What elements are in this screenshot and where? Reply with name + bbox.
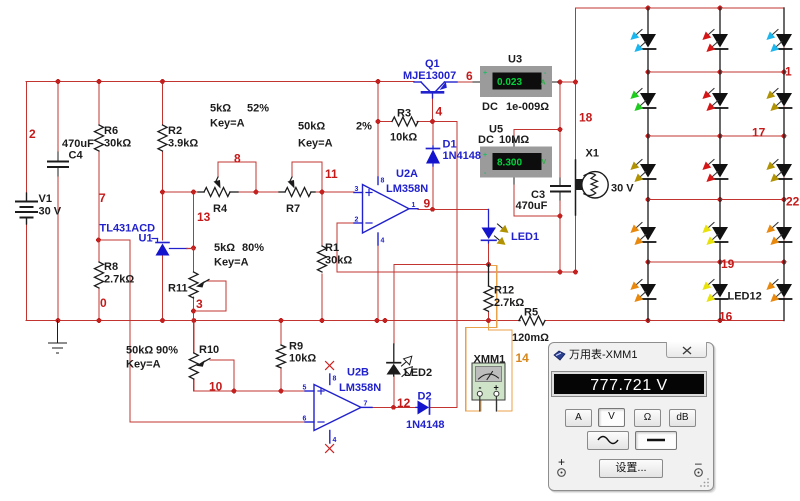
svg-text:Key=A: Key=A — [126, 359, 161, 371]
svg-text:5kΩ: 5kΩ — [214, 242, 235, 254]
svg-text:777.721 V: 777.721 V — [590, 377, 667, 394]
wire U2A pin8 column from top rail — [377, 82, 379, 178]
node dot node 12 — [391, 405, 396, 410]
resistor R8 — [95, 262, 104, 288]
svg-text:8: 8 — [333, 376, 337, 383]
svg-text:0.023: 0.023 — [497, 77, 522, 88]
plus terminal — [558, 455, 565, 469]
svg-text:7: 7 — [99, 191, 106, 205]
resistor R3 — [392, 117, 418, 126]
node dot U3 right x560 — [558, 80, 563, 85]
LED array diode r2c1 — [630, 72, 656, 136]
resistor R5 shunt — [519, 316, 545, 325]
svg-text:5kΩ: 5kΩ — [210, 103, 231, 115]
LED array diode r1c3 — [766, 8, 792, 72]
X mark U2B pin8 unconnected — [326, 362, 334, 370]
diode D1 1N4148 — [426, 146, 440, 166]
LED array diode r5c3 — [766, 262, 792, 321]
svg-text:30 V: 30 V — [611, 183, 634, 195]
svg-text:3: 3 — [355, 186, 359, 193]
wire XMM1 minus lead from node A — [466, 266, 497, 412]
svg-text:Key=A: Key=A — [298, 138, 333, 150]
node dot node 3 — [191, 309, 196, 314]
svg-text:1N4148: 1N4148 — [443, 150, 482, 162]
resistor R2 — [158, 125, 167, 151]
svg-text:2: 2 — [29, 127, 36, 141]
diode D2 1N4148 — [416, 401, 430, 415]
wire R12 bottom lead to rail — [488, 312, 490, 321]
svg-text:X1: X1 — [586, 148, 599, 160]
svg-text:LM358N: LM358N — [386, 183, 428, 195]
LED array diode r2c2 — [702, 72, 728, 136]
wire array right column — [783, 8, 785, 321]
node dot X1 bottom lineB — [573, 270, 578, 275]
svg-text:18: 18 — [579, 111, 593, 125]
svg-text:3.9kΩ: 3.9kΩ — [168, 138, 198, 150]
window close button — [666, 342, 707, 358]
wire U3 right to node18 riser — [557, 81, 576, 83]
ground — [49, 321, 67, 354]
wire C4 column top — [57, 82, 59, 153]
svg-text:R4: R4 — [213, 203, 228, 215]
battery V1 — [16, 193, 37, 224]
wire array row rail net 22 — [648, 199, 784, 201]
svg-text:6: 6 — [303, 416, 307, 423]
svg-text:470uF: 470uF — [62, 138, 94, 150]
node dot node13 top — [191, 190, 196, 195]
svg-text:R2: R2 — [168, 125, 182, 137]
svg-text:R7: R7 — [286, 203, 300, 215]
node dot R8 top branch — [96, 238, 101, 243]
svg-text:1N4148: 1N4148 — [406, 419, 445, 431]
wire riser to array top rail — [575, 8, 577, 82]
svg-text:R12: R12 — [494, 285, 514, 297]
node dot top rail R2 — [160, 79, 165, 84]
diode LED1 — [482, 209, 509, 245]
LED array diode r5c2 — [702, 262, 728, 321]
LED array diode r1c1 — [630, 8, 656, 72]
node dot node 10 wiper — [232, 389, 237, 394]
svg-text:U2B: U2B — [347, 367, 369, 379]
node dot top rail pin8 branch — [376, 79, 381, 84]
instrument XMM1 icon — [472, 363, 505, 411]
potentiometer R7 — [279, 177, 315, 197]
wire battery bottom to ground rail — [26, 224, 28, 320]
svg-text:80%: 80% — [242, 242, 264, 254]
svg-text:V1: V1 — [39, 193, 52, 205]
svg-text:10: 10 — [209, 380, 223, 394]
svg-text:1: 1 — [785, 65, 792, 79]
wire LED1 bottom lead to node A — [488, 243, 490, 265]
multimeter dialog window XMM1 — [548, 342, 714, 491]
LED array diode r4c3 — [766, 200, 792, 263]
svg-text:LM358N: LM358N — [339, 382, 381, 394]
svg-text:2: 2 — [355, 217, 359, 224]
potentiometer R10 — [189, 353, 210, 379]
wire left column node 2 — [26, 82, 28, 194]
node dot node A R12 top — [486, 262, 491, 267]
wire R10 top lead from rail — [193, 320, 195, 353]
voltmeter U5 — [480, 140, 552, 184]
button A — [565, 409, 592, 427]
lamp X1 — [576, 160, 609, 215]
svg-text:22: 22 — [786, 195, 800, 209]
LED array diode r5c1 — [630, 262, 656, 321]
wire R1 column — [321, 192, 323, 246]
wire U2B output to node 12 — [372, 406, 416, 408]
svg-text:30 V: 30 V — [39, 206, 62, 218]
svg-text:R3: R3 — [397, 108, 411, 120]
svg-text:Q1: Q1 — [425, 58, 440, 70]
button V pressed — [598, 408, 625, 427]
svg-text:30kΩ: 30kΩ — [104, 138, 131, 150]
wire XMM1 plus lead from R5 left node — [489, 321, 513, 411]
svg-text:3: 3 — [196, 297, 203, 311]
node dot node 11 R1 top — [320, 190, 325, 195]
svg-text:7: 7 — [364, 401, 368, 408]
svg-text:10kΩ: 10kΩ — [289, 353, 316, 365]
wire D1 column node4 to node9 — [432, 122, 434, 147]
wire bottom rail right of R5 (net 16) — [545, 320, 784, 322]
svg-text:U3: U3 — [508, 54, 522, 66]
node dot node 4 — [430, 119, 435, 124]
svg-text:V: V — [542, 159, 547, 166]
button ohm — [634, 409, 661, 427]
transistor Q1 MJE13007 — [414, 82, 457, 98]
svg-text:16: 16 — [719, 310, 733, 324]
LED array diode r4c2 — [702, 200, 728, 263]
svg-text:8.300: 8.300 — [497, 158, 522, 169]
svg-text:R6: R6 — [104, 125, 118, 137]
LED array diode r1c2 — [702, 8, 728, 72]
svg-text:MJE13007: MJE13007 — [403, 70, 456, 82]
wire R6 R8 column — [98, 82, 100, 126]
minus terminal — [695, 456, 702, 470]
wire branch R8-top to U2B minus input — [99, 240, 306, 422]
wire array top rail — [576, 7, 785, 9]
svg-text:14: 14 — [516, 351, 530, 365]
wire R4 wiper loop node 8 — [218, 162, 256, 192]
wire line B feedback y=272 — [337, 271, 576, 273]
svg-text:R8: R8 — [104, 261, 118, 273]
button AC — [587, 431, 629, 450]
node dot R2 bottom node13 wire — [160, 190, 165, 195]
rail dots — [56, 318, 61, 323]
wire LED2 column — [393, 265, 395, 346]
svg-text:LED1: LED1 — [511, 231, 539, 243]
svg-text:4: 4 — [436, 105, 443, 119]
svg-text:19: 19 — [721, 257, 735, 271]
wire U5/C3 riser x560 — [559, 82, 561, 178]
wire R10 wiper loop — [210, 360, 234, 391]
svg-text:R10: R10 — [199, 344, 219, 356]
svg-text:12: 12 — [397, 396, 411, 410]
node dot U5 bottom — [558, 214, 563, 219]
wire C4 column bottom — [57, 176, 59, 320]
LED array diode r3c3 — [766, 136, 792, 200]
svg-text:XMM1: XMM1 — [474, 354, 506, 366]
svg-text:R9: R9 — [289, 341, 303, 353]
wire Q1 base down to node 4 — [432, 95, 434, 122]
svg-text:50kΩ: 50kΩ — [126, 345, 153, 357]
svg-text:DC: DC — [478, 134, 494, 146]
svg-text:6: 6 — [466, 69, 473, 83]
wire U2A minus input to feedback line B — [337, 223, 354, 272]
window icon — [553, 350, 566, 362]
LED array diode r3c2 — [702, 136, 728, 200]
wire node 18 column with lamp X1 — [575, 82, 577, 272]
wire R2 / U1 column — [162, 82, 164, 126]
svg-text:1e-009Ω: 1e-009Ω — [506, 101, 549, 113]
wire node 4 branch right and down to D2 cathode — [433, 122, 458, 408]
svg-text:R5: R5 — [524, 307, 538, 319]
wire U2B plus input wire node 10 — [194, 379, 305, 391]
op-amp U2B — [305, 374, 372, 443]
svg-text:1: 1 — [412, 202, 416, 209]
X mark U2B pin4 unconnected — [326, 445, 334, 453]
resistor R9 — [277, 345, 286, 368]
wire line A y=264.5 LED2top-R12top — [394, 264, 489, 266]
wire top rail +30V — [26, 81, 414, 83]
node dot R9 bottom — [279, 389, 284, 394]
node dot R4 loop right — [254, 190, 259, 195]
meter display — [552, 372, 706, 396]
svg-text:5: 5 — [303, 385, 307, 392]
wire U5 top lead wire — [514, 130, 560, 147]
resistor R6 — [95, 125, 104, 151]
resize grip — [700, 477, 710, 487]
diode LED2 — [387, 344, 413, 377]
op-amp U2A — [354, 177, 418, 245]
svg-text:52%: 52% — [247, 103, 269, 115]
svg-text:8: 8 — [234, 152, 241, 166]
wire array row rail net 1 — [648, 71, 784, 73]
svg-text:10MΩ: 10MΩ — [499, 134, 529, 146]
wire U2A pin4 to ground rail — [377, 245, 379, 320]
wire R3 right to node 4 — [417, 121, 433, 123]
svg-text:13: 13 — [197, 210, 211, 224]
node dot C3 bottom lineB — [558, 270, 563, 275]
svg-text:Key=A: Key=A — [214, 257, 249, 269]
wire U5 bottom lead wire — [514, 177, 560, 216]
svg-text:2.7kΩ: 2.7kΩ — [494, 297, 524, 309]
svg-text:+: + — [483, 70, 487, 77]
wire bottom ground rail left of R5 — [26, 320, 519, 322]
svg-text:2.7kΩ: 2.7kΩ — [104, 274, 134, 286]
wire node 13 column — [193, 192, 195, 272]
wire R7 wiper loop node 11 — [292, 162, 322, 192]
node dot TL431 ref — [191, 246, 196, 251]
svg-text:U2A: U2A — [396, 168, 418, 180]
svg-text:R11: R11 — [168, 283, 188, 295]
svg-text:4: 4 — [381, 238, 385, 245]
svg-text:50kΩ: 50kΩ — [298, 121, 325, 133]
svg-text:2%: 2% — [356, 121, 372, 133]
svg-text:90%: 90% — [156, 345, 178, 357]
svg-text:9: 9 — [424, 197, 431, 211]
LED array diode r2c3 — [766, 72, 792, 136]
svg-text:10kΩ: 10kΩ — [390, 132, 417, 144]
LED array diode r4c1 — [630, 200, 656, 263]
node dot U5 top — [558, 127, 563, 132]
node dot node18 top — [573, 80, 578, 85]
svg-text:D2: D2 — [418, 391, 432, 403]
node dot top rail C4 — [56, 79, 61, 84]
svg-text:D1: D1 — [443, 139, 457, 151]
svg-text:0: 0 — [100, 296, 107, 310]
svg-text:A: A — [541, 80, 546, 87]
wire D2 cathode to x457 riser — [430, 406, 457, 408]
svg-text:R1: R1 — [325, 242, 339, 254]
svg-text:4: 4 — [333, 437, 337, 444]
svg-text:470uF: 470uF — [516, 200, 548, 212]
wire R11 wiper loop node 3 — [194, 281, 227, 311]
svg-text:LED12: LED12 — [728, 291, 762, 303]
potentiometer R11 — [189, 272, 209, 298]
svg-text:Key=A: Key=A — [210, 118, 245, 130]
svg-text:30kΩ: 30kΩ — [325, 255, 352, 267]
svg-text:C4: C4 — [69, 150, 84, 162]
window title — [569, 346, 637, 362]
svg-text:+: + — [483, 152, 487, 159]
node dot top rail R6 — [97, 79, 102, 84]
resistor R1 — [318, 246, 327, 272]
button settings — [599, 459, 663, 478]
TL431 U1 — [152, 239, 194, 256]
svg-text:11: 11 — [325, 167, 338, 181]
ammeter U3 — [473, 66, 558, 97]
wire Q1 emitter to U3 — [457, 81, 473, 83]
node dot node 9 — [430, 207, 435, 212]
svg-text:U1: U1 — [139, 233, 153, 245]
svg-text:DC: DC — [482, 101, 498, 113]
wire R3 left lead junction — [378, 121, 392, 123]
wire R9 column — [280, 321, 282, 346]
resistor R12 — [484, 265, 493, 312]
wire main mid node wire y=192 — [163, 191, 199, 193]
svg-text:120mΩ: 120mΩ — [512, 332, 549, 344]
wire array row rail net 17 — [648, 135, 784, 137]
svg-text:LED2: LED2 — [404, 367, 432, 379]
LED array diode r3c1 — [630, 136, 656, 200]
button DC pressed — [635, 431, 677, 450]
wire U2A output node 9 — [418, 208, 489, 210]
capacitor C3 — [551, 178, 570, 200]
button dB — [669, 409, 696, 427]
svg-text:8: 8 — [381, 178, 385, 185]
wire array row rail net 19 — [648, 261, 784, 263]
potentiometer R4 — [198, 177, 238, 197]
capacitor C4 — [48, 152, 68, 176]
array rail dots — [646, 6, 651, 11]
node dot R3 left pin8 — [376, 119, 381, 124]
svg-text:17: 17 — [752, 126, 766, 140]
